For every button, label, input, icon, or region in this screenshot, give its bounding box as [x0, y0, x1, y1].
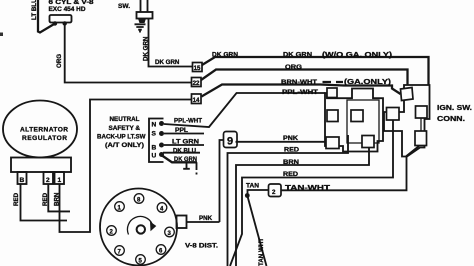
terminal B — [18, 172, 27, 184]
terminal square A (tilted) — [401, 88, 414, 101]
terminal dot J1-2 — [62, 21, 66, 25]
svg-text:DK GRN: DK GRN — [212, 52, 239, 59]
wire DK GRN band — [162, 156, 197, 163]
svg-text:2: 2 — [272, 189, 276, 196]
svg-text:BRN: BRN — [54, 192, 61, 206]
alternator base — [11, 158, 71, 173]
svg-text:CONN.: CONN. — [437, 114, 465, 123]
wire LT BLU — [38, 0, 55, 33]
svg-text:DK GRN: DK GRN — [155, 59, 180, 66]
label ALTERNATOR REGULATOR — [20, 127, 68, 143]
wire PNK from distributor — [187, 221, 220, 223]
svg-text:B: B — [20, 177, 25, 184]
svg-text:22: 22 — [193, 80, 200, 87]
svg-text:S: S — [152, 131, 157, 138]
wire from alternator terminal 1 to box 14 — [60, 100, 192, 233]
splice box 9 — [224, 132, 238, 148]
terminal square C — [387, 108, 400, 121]
ground — [135, 24, 146, 32]
wire LT GRN from B — [164, 144, 204, 146]
ign sw connector left half — [325, 89, 383, 152]
edge artifact mark — [0, 33, 3, 37]
svg-text:DK GRN: DK GRN — [174, 156, 198, 163]
terminal square S5 — [362, 136, 374, 148]
svg-text:9: 9 — [227, 136, 233, 148]
svg-text:1: 1 — [58, 177, 62, 184]
svg-text:PPL-WHT: PPL-WHT — [174, 118, 202, 125]
terminal 2 — [44, 172, 54, 184]
svg-text:LT BLU: LT BLU — [31, 0, 38, 20]
svg-text:LT GRN: LT GRN — [172, 139, 200, 146]
wire TAN-WHT diagonal — [247, 196, 266, 266]
svg-text:SAFETY &: SAFETY & — [109, 125, 141, 132]
NSBU connector body — [149, 119, 164, 163]
band drop 1 — [183, 162, 190, 169]
rotor center — [137, 225, 145, 233]
terminal dot U — [159, 152, 164, 157]
wire DK GRN to ign sw — [202, 57, 429, 85]
terminal square D — [415, 131, 427, 146]
wire ORG to ign sw — [201, 70, 408, 86]
svg-text:IGN. SW.: IGN. SW. — [437, 103, 472, 112]
svg-text:TAN: TAN — [246, 183, 260, 190]
label 6 CYL & V-8 EXC 454 HD — [49, 0, 95, 13]
distributor cap terminal 4 — [157, 203, 167, 213]
wire TAN — [248, 190, 269, 196]
wire RED from 2 — [48, 184, 70, 211]
label NEUTRAL SAFETY & BACK-UP LT.SW (A/T ONLY) — [97, 116, 146, 149]
wire TAN-WHT to ign sw — [281, 146, 419, 190]
svg-text:ALTERNATOR: ALTERNATOR — [20, 127, 68, 134]
wire PNK distributor riser — [220, 140, 224, 222]
splice box 2 — [269, 184, 282, 197]
svg-text:NEUTRAL: NEUTRAL — [110, 116, 140, 123]
wire BRN — [236, 148, 369, 266]
svg-text:ORG: ORG — [285, 64, 302, 71]
svg-text:BRN-WHT: BRN-WHT — [281, 79, 317, 86]
wire DK GRN from switch — [149, 19, 193, 67]
svg-text:PNK: PNK — [283, 135, 299, 142]
svg-text:(GA.ONLY): (GA.ONLY) — [344, 77, 392, 86]
distributor tab — [177, 216, 187, 229]
terminal square S2 — [327, 110, 338, 122]
svg-text:BRN: BRN — [283, 159, 300, 166]
svg-text:DK GRN: DK GRN — [143, 36, 150, 61]
switch body — [137, 12, 153, 19]
wire ORG vertical — [65, 24, 192, 83]
svg-text:DK GRN: DK GRN — [283, 52, 313, 59]
wire BRN-WHT to ign sw — [202, 82, 401, 97]
wire DK BLU from U — [163, 152, 200, 154]
distributor cap terminal 6 — [156, 245, 166, 255]
svg-text:TAN WHT: TAN WHT — [258, 238, 265, 266]
svg-text:EXC 454 HD: EXC 454 HD — [49, 6, 87, 13]
svg-text:ORG: ORG — [56, 54, 63, 68]
distributor body — [100, 189, 177, 266]
svg-text:REGULATOR: REGULATOR — [22, 135, 67, 142]
terminal square S3 — [351, 110, 363, 122]
terminal square S4 — [326, 137, 339, 149]
wire PPL-WHT from NSBU to ign sw — [164, 93, 325, 127]
distributor cap terminal 3 — [165, 227, 175, 237]
svg-text:14: 14 — [193, 97, 200, 104]
svg-text:B: B — [152, 145, 157, 152]
svg-text:RED: RED — [42, 192, 49, 206]
terminal square B2 — [416, 106, 428, 118]
rotation arrow — [127, 216, 152, 234]
distributor cap terminal 7 — [115, 246, 125, 256]
wire RED 2 — [230, 120, 393, 266]
svg-text:U: U — [152, 153, 157, 160]
distributor cap terminal 2 — [107, 226, 117, 236]
svg-text:N: N — [152, 122, 157, 129]
band drop 2 — [196, 162, 198, 174]
distributor cap terminal 5 — [136, 255, 146, 265]
wire RED from B — [21, 184, 68, 221]
terminal dot J1-1 — [53, 21, 57, 25]
svg-text:SW.: SW. — [118, 3, 130, 10]
svg-text:V-8 DIST.: V-8 DIST. — [185, 243, 218, 250]
label IGN. SW. CONN. — [437, 103, 472, 123]
svg-text:RED: RED — [284, 147, 300, 154]
alternator regulator body — [3, 101, 77, 158]
terminal square S1 — [327, 88, 337, 98]
splice box 15 — [193, 63, 203, 73]
connector inner wall — [347, 100, 379, 143]
svg-text:2: 2 — [46, 177, 50, 184]
splice box 22 — [192, 78, 202, 88]
arrowhead — [150, 222, 156, 232]
terminal 1 — [55, 172, 65, 184]
terminal dot S — [159, 131, 164, 136]
wire B2 to D — [420, 118, 422, 131]
distributor cap terminal 8 — [134, 194, 144, 204]
splice box 14 — [192, 94, 202, 104]
terminal dot N — [159, 121, 164, 126]
svg-text:DK BLU: DK BLU — [173, 148, 197, 155]
svg-text:RED: RED — [283, 171, 299, 178]
svg-text:(A/T ONLY): (A/T ONLY) — [105, 142, 144, 149]
svg-text:(W/O GA. ONLY): (W/O GA. ONLY) — [322, 50, 393, 59]
junction dot TAN — [245, 193, 250, 198]
wire PPL from S — [164, 133, 204, 135]
switch terminal blob — [138, 19, 146, 24]
connector J1 (exc 454 box) — [50, 15, 72, 23]
svg-text:RED: RED — [13, 192, 20, 206]
svg-text:15: 15 — [194, 65, 201, 72]
svg-text:PPL-WHT: PPL-WHT — [282, 89, 318, 96]
terminal dot B — [159, 143, 164, 148]
switch component pins — [141, 0, 148, 12]
wire RED 1 — [228, 135, 349, 266]
svg-text:PNK: PNK — [199, 215, 213, 222]
distributor cap terminal 1 — [115, 202, 125, 212]
ign sw connector right half — [384, 85, 430, 157]
svg-text:PPL: PPL — [175, 127, 188, 134]
svg-text:BACK-UP LT.SW: BACK-UP LT.SW — [97, 134, 146, 141]
wire PNK to connector — [236, 141, 327, 143]
